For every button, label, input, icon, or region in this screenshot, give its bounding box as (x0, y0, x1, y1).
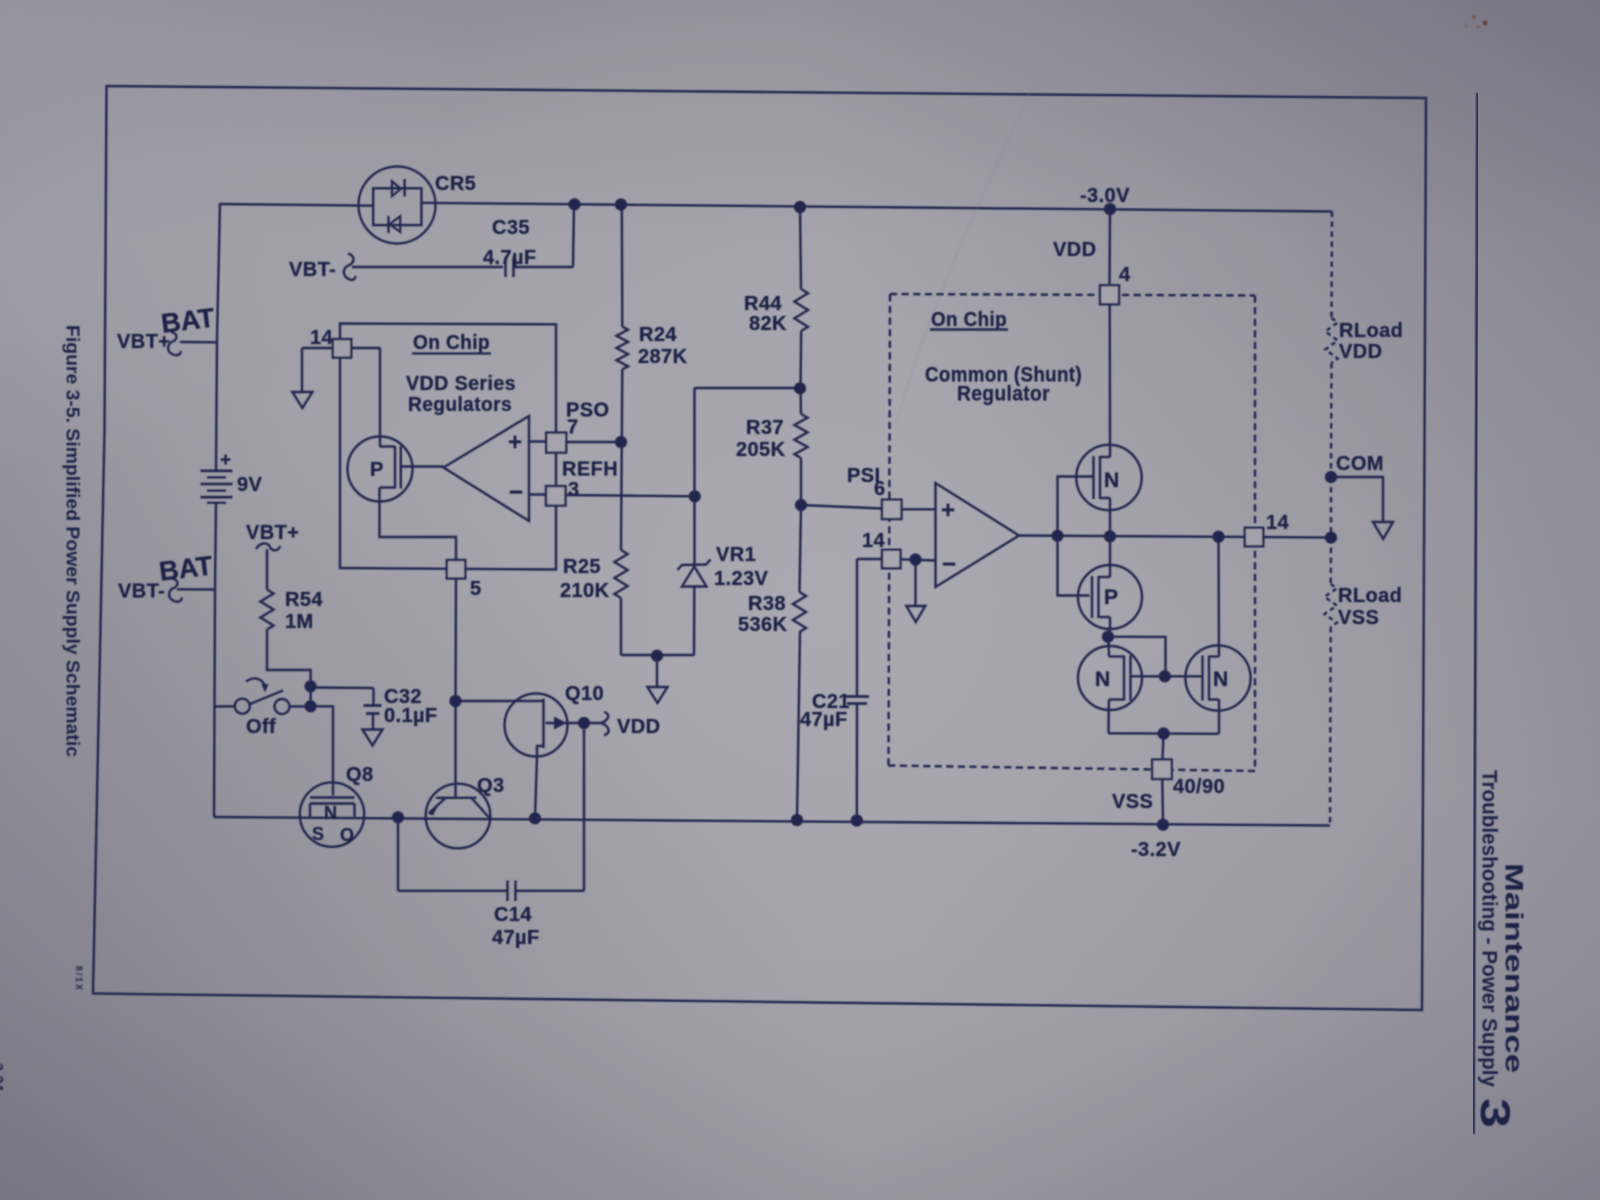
svg-text:VBT-: VBT- (289, 259, 336, 281)
transistor N-MOSFET (lower left) (1107, 637, 1110, 646)
svg-text:4.7µF: 4.7µF (483, 247, 537, 269)
svg-text:R25: R25 (563, 556, 601, 578)
pin 14 (box2 right) (1245, 528, 1264, 547)
svg-text:47µF: 47µF (800, 709, 848, 731)
svg-text:7: 7 (567, 417, 579, 439)
node: output/gate riser (1051, 530, 1063, 542)
svg-text:C14: C14 (494, 904, 532, 926)
node: N-fet source (1104, 530, 1116, 542)
svg-text:3: 3 (568, 479, 580, 501)
node: ground tap (651, 650, 663, 662)
node: REFH-VR1 junction (689, 490, 701, 502)
svg-text:VDD: VDD (617, 716, 660, 738)
svg-text:Troubleshooting - Power Supply: Troubleshooting - Power Supply (1478, 770, 1501, 1087)
wire U2 output (1019, 536, 1246, 537)
ground (U2) (906, 606, 925, 622)
svg-text:Off: Off (246, 716, 276, 738)
terminal arrow COM (1373, 522, 1393, 539)
svg-text:−: − (942, 551, 956, 578)
box: On Chip (VDD Series Regulators) (340, 324, 556, 570)
node: RLoad VSS top (1325, 532, 1337, 544)
svg-text:N: N (1104, 469, 1119, 492)
pin 4 (1100, 285, 1119, 304)
svg-text:P: P (370, 459, 383, 481)
svg-text:0.1µF: 0.1µF (384, 705, 438, 727)
wire VDD down (1108, 209, 1111, 286)
label VBT+ / BAT (handwritten) (180, 341, 217, 344)
svg-text:R44: R44 (744, 293, 782, 315)
wire: top -3.0V bus (422, 203, 1333, 212)
svg-text:S: S (312, 824, 324, 844)
svg-text:R37: R37 (746, 417, 784, 439)
svg-text:R24: R24 (639, 324, 677, 346)
svg-text:47µF: 47µF (492, 927, 540, 949)
svg-text:205K: 205K (736, 439, 786, 461)
svg-text:Maintenance: Maintenance (1500, 863, 1528, 1073)
svg-text:On Chip: On Chip (931, 309, 1007, 331)
svg-text:1M: 1M (285, 611, 314, 633)
switch Off (215, 705, 235, 708)
wire R25 bottom to VR1 (621, 654, 695, 656)
svg-text:O: O (340, 825, 354, 845)
svg-text:1.23V: 1.23V (714, 568, 769, 590)
wire -3.0V corner to RLoad VDD (dashed) (1330, 212, 1333, 319)
squiggle (VBT+ R54) (256, 543, 280, 556)
svg-text:8/1X: 8/1X (74, 966, 84, 990)
transistor U1 P-MOSFET (348, 437, 413, 502)
svg-text:+: + (508, 429, 522, 456)
wire pin6 to +input (902, 508, 936, 510)
svg-text:−: − (509, 479, 523, 506)
wire: VBT- to C35 (352, 266, 503, 268)
wire gate riser down to P-fet (1058, 536, 1090, 596)
svg-text:C35: C35 (492, 217, 530, 239)
node: Q10 collector on bus (529, 812, 541, 824)
pin 5 (box1 bottom) (447, 560, 466, 579)
capacitor C32 0.1uF (311, 686, 374, 689)
wire R24 to R25 (621, 369, 622, 550)
wire P drain to gates of N pair (1108, 637, 1166, 677)
svg-text:-3.2V: -3.2V (1131, 839, 1181, 861)
node: right N drain (1212, 531, 1224, 543)
wire P-fet drain to pin 5 (380, 502, 457, 561)
node: PSI junction (795, 499, 807, 511)
svg-text:R54: R54 (285, 589, 323, 611)
node: P drain junction (1102, 631, 1114, 643)
pin 40/90 (1163, 734, 1164, 760)
resistor RLoad VSS (dashed) (1325, 584, 1337, 627)
node: VR1 junction (794, 382, 806, 394)
transistor P-MOSFET (shunt) (1078, 565, 1142, 629)
node: C14 junction on bus (392, 811, 404, 823)
resistor R25 210K (614, 550, 627, 598)
svg-text:VR1: VR1 (716, 544, 756, 566)
node: VDD junction on top bus (1104, 203, 1116, 215)
scratch (faint) (896, 82, 1035, 425)
node: VSS junction on bus (1157, 819, 1169, 831)
pin REFH 3 (546, 486, 566, 506)
svg-text:VDD: VDD (1053, 239, 1096, 261)
svg-text:R38: R38 (748, 593, 786, 615)
ground (C32) (363, 730, 383, 746)
svg-text:210K: 210K (560, 580, 610, 602)
ground (VR1/R25) (648, 687, 668, 703)
wire sources of N pair (1109, 732, 1220, 735)
wire pin14 to RLoad line (1262, 536, 1331, 539)
svg-text:N: N (1095, 668, 1110, 691)
node: PSO junction (615, 436, 627, 448)
squiggle VDD (601, 712, 609, 735)
node: gate node of N pair (1159, 670, 1171, 682)
svg-text:82K: 82K (749, 313, 787, 335)
svg-text:RLoad: RLoad (1339, 320, 1403, 342)
svg-text:VSS: VSS (1112, 791, 1153, 813)
node: junction R24 on top bus (615, 198, 627, 210)
pin PSO 7 (546, 433, 566, 453)
svg-text:+: + (941, 497, 955, 524)
node: C21 on bus (851, 814, 863, 826)
svg-text:14: 14 (310, 327, 334, 349)
node: 40/90 junction (1158, 727, 1170, 739)
specks (1465, 15, 1487, 28)
transistor Q10 (505, 694, 568, 757)
transistor N-MOSFET (lower right) (1185, 645, 1250, 710)
svg-text:REFH: REFH (562, 459, 618, 481)
svg-text:Q3: Q3 (477, 775, 504, 797)
svg-text:+: + (220, 450, 231, 471)
resistor R24 287K (621, 205, 624, 327)
op-amp U1 (VDD series reg) (444, 416, 530, 521)
capacitor C21 47uF (857, 558, 882, 560)
node: COM junction (1325, 471, 1337, 483)
node: R38 bottom on bus (791, 814, 803, 826)
transistor Q3 (426, 784, 491, 849)
wire: bottom VSS bus (214, 817, 1330, 826)
sidebar text Maintenance (0, 325, 1528, 1128)
svg-text:Figure 3-5. Simplified Power S: Figure 3-5. Simplified Power Supply Sche… (63, 325, 84, 757)
transistor Q8 MOSFET (300, 782, 364, 846)
capacitor C35 (504, 257, 506, 277)
svg-text:4: 4 (1119, 264, 1131, 286)
label VBT- / BAT (handwritten) (177, 588, 215, 591)
schematic border frame (93, 86, 1426, 1010)
op-amp U2 (shunt regulator) (936, 483, 1020, 587)
capacitor C14 47uF (397, 817, 399, 891)
svg-text:VDD Series: VDD Series (406, 373, 516, 395)
svg-text:VBT+: VBT+ (246, 522, 299, 544)
resistor RLoad VDD (dashed) (1325, 318, 1337, 363)
svg-text:3-24: 3-24 (0, 1063, 7, 1091)
svg-text:Regulators: Regulators (408, 394, 512, 416)
transistor N-MOSFET (top) (1076, 445, 1141, 510)
wire +input to PSO (529, 440, 546, 442)
squiggle connector VBT- (344, 254, 356, 280)
box: On Chip (Common Shunt Regulator), dashed (890, 294, 1255, 296)
wire pin14 to -input (901, 559, 936, 560)
svg-text:Q10: Q10 (565, 683, 604, 705)
wire: left vertical bus (216, 203, 220, 471)
zener diode VR1 1.23V (693, 388, 695, 566)
svg-text:Q8: Q8 (346, 764, 373, 786)
svg-text:14: 14 (1266, 512, 1290, 534)
svg-text:6: 6 (874, 478, 886, 500)
wire gate riser up to N-fet (1058, 477, 1094, 536)
node: VDD/C14 junction (578, 717, 590, 729)
svg-text:287K: 287K (638, 346, 688, 368)
svg-text:VBT-: VBT- (118, 581, 165, 603)
svg-text:9V: 9V (237, 474, 263, 496)
wire: VR1 top to R44 line (695, 387, 801, 389)
wire COM (1331, 477, 1383, 522)
svg-text:VSS: VSS (1338, 607, 1379, 629)
svg-text:N: N (1213, 668, 1228, 691)
node: R44 top junction (794, 201, 806, 213)
svg-text:CR5: CR5 (435, 173, 476, 195)
wire to Q10 base (456, 700, 544, 702)
node: junction C35 riser on top bus (568, 198, 580, 210)
node: pin5/Q10/Q3 junction (449, 695, 461, 707)
diode pair CR5 (359, 167, 436, 244)
svg-text:5: 5 (470, 578, 482, 600)
wire PSI to pin6 (801, 505, 882, 509)
wire: PSO pin to R24 line (565, 441, 621, 443)
resistor R44 82K (800, 207, 801, 289)
ground (pin 14) (292, 392, 312, 408)
pin 14 (box1) (333, 339, 352, 358)
wire switch to Q8 gate (311, 706, 333, 795)
node: switch junction (305, 700, 317, 712)
wire -input to REFH (529, 493, 546, 495)
resistor R37 205K (799, 388, 802, 414)
svg-text:N: N (324, 803, 337, 823)
resistor R38 536K (800, 505, 802, 592)
svg-text:RLoad: RLoad (1338, 585, 1402, 607)
node: R54/C32 junction (305, 680, 317, 692)
resistor R54 1M (266, 553, 268, 590)
svg-text:536K: 536K (738, 614, 788, 636)
svg-text:P: P (1104, 586, 1118, 609)
svg-text:-3.0V: -3.0V (1080, 185, 1130, 207)
wire pin14 to ground (302, 347, 333, 349)
sidebar rule (right) (1474, 93, 1478, 1134)
wire: REFH pin to VR1 (565, 495, 695, 496)
wire COM to pin14 node (dashed) (1330, 477, 1332, 538)
svg-text:Regulator: Regulator (957, 383, 1050, 406)
svg-text:40/90: 40/90 (1173, 776, 1225, 798)
svg-text:VDD: VDD (1339, 341, 1382, 363)
wire op-amp gate lead (401, 465, 444, 467)
wire Q10 emitter to VDD (568, 722, 585, 724)
svg-text:On Chip: On Chip (413, 332, 490, 354)
wire: top -3.0V bus (left of CR5) (220, 204, 373, 206)
svg-text:3: 3 (1472, 1098, 1519, 1128)
node: ground tap (U2 -input) (909, 553, 921, 565)
svg-text:COM: COM (1336, 453, 1384, 475)
wire pin14 to P-fet source (351, 347, 381, 349)
